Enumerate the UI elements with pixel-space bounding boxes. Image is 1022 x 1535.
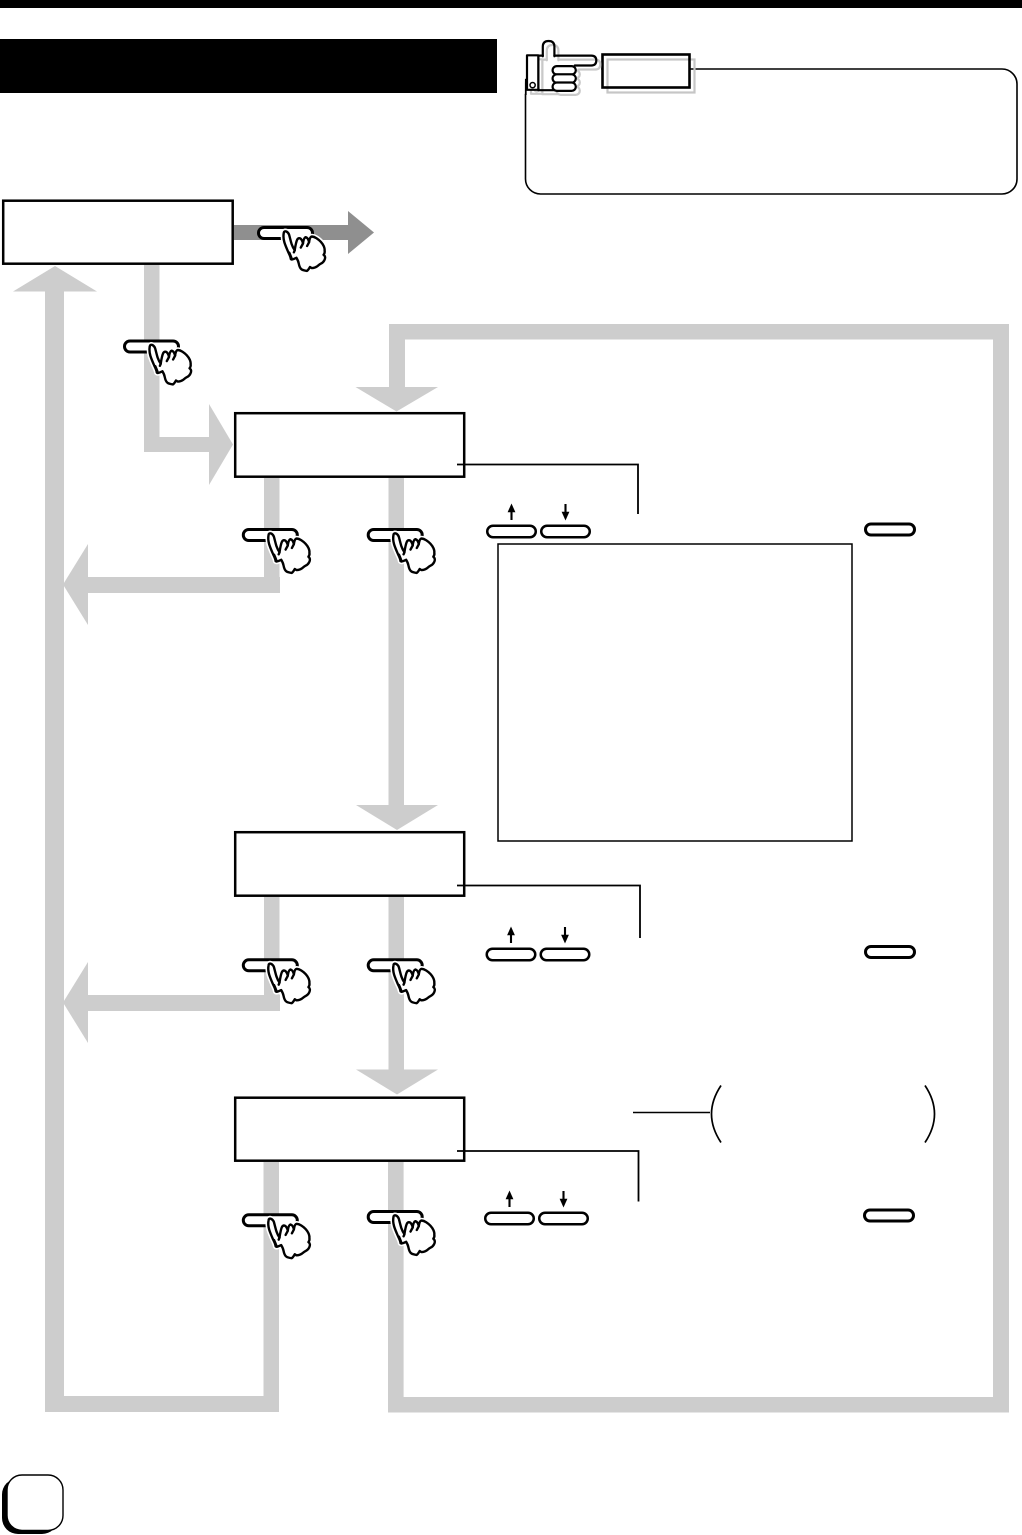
line to parenthetical [633,1112,710,1114]
screen rectangle [498,544,852,841]
dark gray arrow from box1 right [234,225,348,240]
page badge bottom-left [2,1479,58,1535]
title bar [0,39,497,93]
single pill row 1 [866,524,915,535]
up/down buttons row 3 [485,1191,588,1225]
gray flow: bottom-right horizontal [388,1397,1009,1413]
callout line from box4 [457,1151,639,1202]
gray flow: box4 right exit bar [388,1162,404,1412]
gray flow: down arrowhead into box4 [356,1070,438,1095]
press icon 3 (below box2 left) [243,530,310,573]
gray flow: box2 right exit bar [389,478,405,805]
note label rectangle with shadow [603,55,690,88]
press icon 6 (below box3 right) [368,960,435,1003]
manicule (pointing hand) [527,41,600,95]
gray flow: top loop horizontal [389,324,1009,340]
gray flow: left return shaft [45,291,64,1412]
gray flow: down arrowhead into box3 [356,805,438,830]
right parenthesis [925,1086,935,1143]
press icon 4 (below box2 right) [368,530,435,573]
gray flow: box3 left return horizontal [88,995,280,1011]
note box left border reconnect [525,79,527,95]
left parenthesis [712,1086,722,1143]
press icon 5 (below box3 left) [243,960,310,1003]
gray flow: box2 left exit bar [264,478,280,592]
press icon 2 (below box1) [125,341,192,384]
gray flow: box4 left exit bar down [264,1162,280,1412]
gray flow: left arrowhead (box2 return) [63,544,88,625]
gray flow: up arrowhead into box1 [13,266,97,292]
gray flow: down arrowhead into box2 top [356,387,439,412]
gray flow: right arrowhead into box2 [209,404,233,485]
box2 [235,413,464,477]
gray flow: bottom-left horizontal [45,1396,279,1412]
up/down buttons row 2 [487,927,590,961]
gray flow: elbow into box2 [144,437,209,452]
gray flow: box3 right exit bar [389,897,405,1070]
single pill row 3 [865,1210,914,1221]
up/down buttons row 1 [487,504,590,538]
white patch of pasted hand artwork over note box corner [525,40,602,94]
press icon 1 (on dark arrow) [259,228,326,271]
gray flow: right loop vertical [993,339,1009,1412]
gray flow: left arrowhead (box3 return) [63,962,88,1043]
gray flow: box2 left return horizontal [88,577,280,593]
single pill row 2 [866,947,915,958]
gray flow: top loop left leg [389,324,405,387]
box4 [235,1098,464,1161]
callout line from box3 [457,886,640,939]
box3 [235,832,464,896]
press icon 8 (below box4 right) [368,1212,435,1255]
press icon 7 (below box4 left) [243,1215,310,1258]
note rounded box [526,69,1018,194]
box1 [3,201,233,264]
top rule bar [0,0,1022,8]
gray flow: box1 down bar [144,265,160,452]
gray flow: box3 left exit bar [264,897,280,1011]
callout line from box2 [457,465,638,515]
